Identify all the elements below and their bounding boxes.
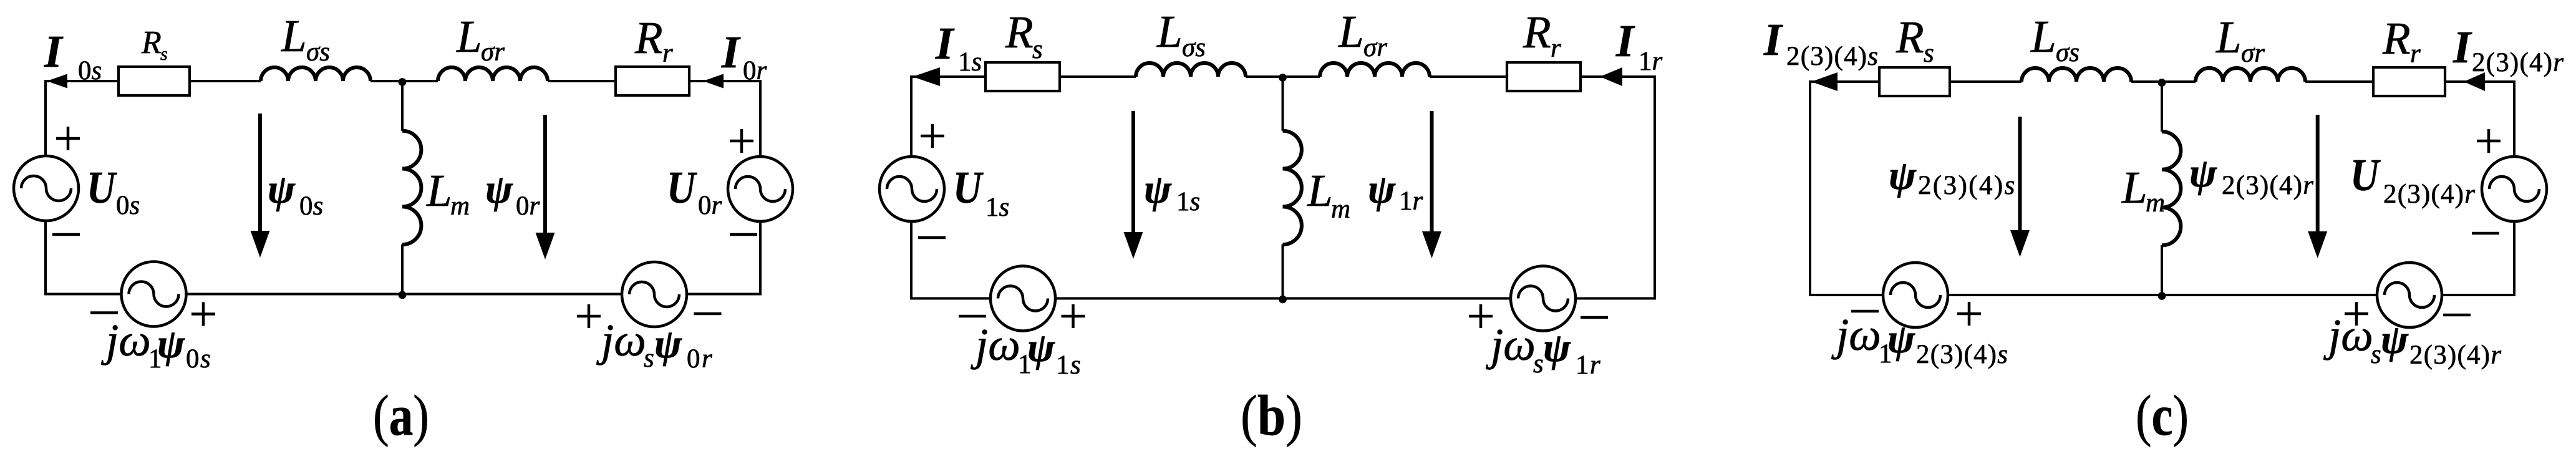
node top junction dot (a) — [399, 78, 407, 86]
svg-text:ψ: ψ — [1027, 325, 1055, 370]
node bottom junction dot (b) — [1279, 296, 1287, 304]
wire L_m to bottom node (b) — [1282, 244, 1284, 299]
plus sign jws_psi_1r — [1469, 304, 1493, 328]
minus sign U_2r — [2472, 232, 2499, 235]
svg-text:ψ: ψ — [2189, 150, 2217, 196]
wire bottom-left segment (a) — [44, 293, 122, 296]
svg-text:L: L — [1338, 6, 1364, 57]
svg-text:0r: 0r — [698, 191, 722, 220]
svg-text:s: s — [1924, 39, 1934, 68]
node bottom junction dot (c) — [2158, 292, 2166, 300]
svg-text:2(3)(4)s: 2(3)(4)s — [1918, 171, 2017, 200]
minus sign jws_psi_1r — [1581, 316, 1608, 319]
svg-text:I: I — [2453, 22, 2472, 72]
inductor L_sigma_s (b) — [1136, 63, 1246, 77]
svg-text:1s: 1s — [1056, 350, 1082, 380]
minus sign jw1psi_2s — [1851, 310, 1879, 313]
svg-text:ψ: ψ — [1368, 167, 1396, 212]
svg-text:r: r — [662, 39, 673, 68]
svg-text:L: L — [2121, 162, 2147, 213]
svg-text:2(3)(4)r: 2(3)(4)r — [2222, 171, 2314, 200]
svg-text:L: L — [2215, 12, 2242, 62]
svg-text:r: r — [1551, 34, 1561, 63]
wire bottom-right segment (c) — [2442, 294, 2515, 296]
svg-text:jω: jω — [1831, 309, 1881, 360]
svg-text:s: s — [2371, 340, 2381, 369]
svg-text:U: U — [87, 162, 117, 213]
wire right branch (b) — [1654, 75, 1656, 299]
svg-text:0s: 0s — [116, 191, 140, 220]
wire bottom-left segment (c) — [1809, 294, 1883, 296]
plus sign U_0s — [56, 127, 80, 150]
wire node to L_sigma_r (a) — [402, 80, 438, 82]
inductor L_sigma_s (a) — [261, 67, 370, 81]
svg-text:1r: 1r — [1399, 186, 1423, 216]
svg-text:1s: 1s — [985, 193, 1009, 222]
wire L_sigma_s to node (a) — [370, 80, 402, 82]
wire R_r to top-right corner (c) — [2445, 80, 2514, 83]
svg-text:m: m — [450, 191, 470, 221]
wire bottom-right segment (b) — [1576, 297, 1656, 300]
svg-text:r: r — [2410, 39, 2421, 69]
svg-text:1s: 1s — [958, 47, 982, 77]
magnetizing inductor L_m (c) — [2162, 132, 2181, 245]
minus sign jws_psi_2r — [2443, 314, 2471, 317]
wire right branch lower (a) — [759, 221, 762, 294]
svg-text:jω: jω — [1486, 319, 1536, 370]
svg-text:ψ: ψ — [654, 321, 682, 367]
inductor L_sigma_s (c) — [2022, 68, 2131, 82]
svg-text:2(3)(4)r: 2(3)(4)r — [2472, 48, 2564, 77]
wire left branch (c) — [1809, 80, 1811, 295]
wire R_r to top-right corner (b) — [1581, 75, 1655, 78]
minus sign U_0s — [52, 233, 80, 236]
wire right branch lower (c) — [2513, 221, 2515, 295]
wire top-left segment (b) — [911, 75, 985, 78]
node top junction dot (c) — [2158, 79, 2166, 87]
svg-text:ψ: ψ — [268, 167, 296, 212]
wire right branch upper (c) — [2513, 80, 2515, 157]
svg-text:R: R — [634, 12, 663, 63]
svg-text:ψ: ψ — [1889, 153, 1917, 198]
svg-text:jω: jω — [2323, 310, 2373, 360]
EMF source jw1psi_2(3)(4)s circle — [1883, 263, 1948, 327]
wire L_sigma_r to R_r (a) — [548, 80, 616, 82]
wire top-left segment (a) — [46, 80, 119, 82]
flux arrow psi_0r — [536, 115, 555, 259]
plus sign jw1psi_1s — [1062, 304, 1085, 328]
svg-text:ψ: ψ — [2381, 317, 2409, 362]
svg-text:L: L — [281, 11, 307, 61]
wire left branch lower (b) — [910, 221, 913, 299]
flux arrow psi_2(3)(4)r — [2308, 115, 2327, 258]
svg-text:0r: 0r — [743, 56, 767, 85]
svg-text:ψ: ψ — [1543, 325, 1571, 370]
svg-text:s: s — [1032, 35, 1043, 64]
resistor R_s (b) box — [985, 62, 1060, 91]
current arrow I_1s head — [913, 67, 940, 86]
svg-text:1s: 1s — [1176, 187, 1200, 216]
svg-text:σr: σr — [481, 37, 505, 67]
wire bottom middle segment (a) — [186, 293, 622, 296]
circuit (b) rotor-flux reference frame — [879, 62, 1656, 331]
svg-text:m: m — [2146, 188, 2165, 218]
EMF source jw1psi_1s circle — [990, 266, 1055, 331]
plus sign U_0r — [730, 129, 753, 153]
EMF source jws_psi_1r circle — [1511, 266, 1576, 331]
wire L_sigma_s to node (b) — [1246, 75, 1283, 78]
minus sign jw1psi_1s — [959, 315, 986, 318]
minus sign jws_psi_0r — [694, 312, 722, 316]
svg-text:σs: σs — [2056, 38, 2080, 67]
svg-text:I: I — [1615, 16, 1635, 66]
inductor L_sigma_r (b) — [1320, 63, 1430, 77]
svg-text:2(3)(4)r: 2(3)(4)r — [2383, 180, 2476, 209]
svg-text:ψ: ψ — [1887, 316, 1915, 362]
svg-text:σr: σr — [1363, 33, 1387, 62]
wire bottom-left segment (b) — [910, 297, 990, 300]
wire bottom-right segment (a) — [687, 293, 762, 296]
svg-text:σs: σs — [1182, 33, 1206, 62]
resistor R_s (c) box — [1879, 67, 1950, 96]
wire R_s to L_sigma_s (a) — [190, 80, 261, 82]
wire L_sigma_r to R_r (b) — [1430, 75, 1507, 78]
svg-text:I: I — [935, 18, 955, 69]
svg-text:(b): (b) — [1241, 384, 1302, 447]
svg-text:I: I — [44, 26, 64, 77]
resistor R_r (a) box — [616, 67, 689, 95]
current arrow I_0s head — [47, 74, 67, 89]
voltage source U_2(3)(4)r circle — [2482, 157, 2547, 221]
svg-text:L: L — [456, 11, 482, 62]
inductor L_sigma_r (a) — [438, 67, 548, 81]
magnetizing inductor L_m (a) — [402, 131, 421, 244]
svg-text:1r: 1r — [1576, 350, 1601, 380]
svg-text:m: m — [1331, 195, 1350, 224]
flux arrow psi_0s — [251, 114, 270, 258]
inductor L_sigma_r (c) — [2196, 68, 2305, 82]
svg-text:L: L — [426, 165, 452, 216]
voltage source U_0s circle — [14, 156, 79, 221]
wire bottom middle segment (b) — [1055, 297, 1511, 300]
svg-text:2(3)(4)s: 2(3)(4)s — [1916, 340, 2008, 369]
circuit (c) synchronous reference frame — [1809, 67, 2547, 327]
svg-text:I: I — [721, 27, 741, 77]
plus sign jw1psi_2s — [1957, 302, 1981, 326]
current arrow I_2(3)(4)r head — [2464, 72, 2485, 91]
resistor R_r (c) box — [2373, 67, 2445, 96]
plus sign jw1psi_0s — [191, 302, 215, 326]
minus sign jw1psi_0s — [90, 311, 118, 314]
wire R_s to L_sigma_s (b) — [1060, 75, 1136, 78]
wire node to L_m (c) — [2161, 82, 2163, 132]
svg-text:L: L — [2030, 11, 2056, 62]
minus sign U_0r — [730, 233, 757, 236]
wire node to L_m (b) — [1282, 77, 1284, 131]
svg-text:2(3)(4)r: 2(3)(4)r — [2409, 341, 2502, 370]
svg-text:s: s — [160, 44, 168, 64]
svg-text:U: U — [667, 162, 697, 213]
plus sign U_2r — [2477, 129, 2501, 153]
wire left branch upper (b) — [910, 75, 913, 157]
svg-text:R: R — [1896, 12, 1924, 62]
EMF source jws_psi_2(3)(4)r circle — [2377, 263, 2442, 327]
wire top-left segment (c) — [1810, 80, 1879, 83]
wire L_m to bottom node (c) — [2161, 245, 2163, 295]
svg-text:R: R — [141, 25, 162, 60]
voltage source U_1s circle — [879, 157, 944, 221]
voltage source U_0r circle — [728, 157, 793, 221]
flux arrow psi_1s — [1124, 111, 1143, 259]
wire R_r to top-right corner (a) — [689, 80, 760, 82]
svg-text:0s: 0s — [78, 56, 102, 85]
current arrow I_0r head — [703, 74, 724, 89]
EMF source jws_psi_0r circle — [622, 262, 687, 327]
magnetizing inductor L_m (b) — [1283, 131, 1302, 244]
plus sign jws_psi_0r — [577, 304, 601, 328]
svg-text:s: s — [1533, 349, 1544, 379]
svg-text:R: R — [2382, 13, 2411, 64]
svg-text:0s: 0s — [299, 191, 323, 221]
wire L_sigma_s to node (c) — [2131, 80, 2162, 83]
svg-text:0r: 0r — [687, 344, 714, 374]
svg-text:1r: 1r — [1639, 47, 1663, 76]
wire node to L_sigma_r (b) — [1283, 75, 1320, 78]
plus sign jws_psi_2r — [2345, 302, 2368, 326]
plus sign U_1s — [921, 124, 944, 148]
svg-text:jω: jω — [596, 315, 646, 365]
flux arrow psi_2(3)(4)s — [2010, 117, 2030, 257]
wire left branch upper (a) — [44, 80, 47, 156]
wire L_m to bottom node (a) — [401, 244, 404, 294]
svg-text:U: U — [2350, 150, 2381, 200]
svg-text:(a): (a) — [373, 384, 429, 447]
wire R_s to L_sigma_s (c) — [1950, 80, 2022, 83]
wire node to L_sigma_r (c) — [2162, 80, 2196, 83]
svg-text:ψ: ψ — [1144, 167, 1172, 212]
resistor R_r (b) box — [1507, 62, 1581, 91]
node bottom junction dot (a) — [399, 291, 407, 299]
wire node to L_m (a) — [401, 81, 404, 131]
svg-text:L: L — [1156, 6, 1183, 57]
svg-text:jω: jω — [101, 315, 151, 365]
svg-text:σr: σr — [2241, 39, 2265, 68]
svg-text:R: R — [1005, 7, 1034, 57]
flux arrow psi_1r — [1422, 111, 1441, 258]
svg-text:ψ: ψ — [485, 167, 513, 212]
svg-text:L: L — [1307, 165, 1333, 216]
current arrow I_2(3)(4)s head — [1811, 72, 1838, 91]
minus sign U_1s — [918, 236, 946, 239]
resistor R_s (a) box — [119, 67, 190, 95]
svg-text:s: s — [644, 344, 654, 373]
wire right branch upper (a) — [759, 80, 762, 157]
node top junction dot (b) — [1279, 74, 1287, 82]
svg-text:2(3)(4)s: 2(3)(4)s — [1786, 42, 1879, 71]
svg-text:(c): (c) — [2136, 384, 2189, 447]
wire bottom middle segment (c) — [1948, 294, 2377, 296]
svg-text:0r: 0r — [516, 191, 540, 221]
svg-text:I: I — [1763, 14, 1783, 65]
EMF source jw1psi_0s circle — [122, 262, 186, 327]
wire L_sigma_r to R_r (c) — [2305, 80, 2373, 83]
svg-text:R: R — [1523, 7, 1551, 57]
svg-text:U: U — [953, 162, 984, 213]
wire left branch lower (a) — [44, 221, 47, 294]
circuit (a) stator-flux reference frame — [14, 67, 793, 327]
svg-text:σs: σs — [306, 37, 330, 67]
svg-text:ψ: ψ — [157, 321, 185, 367]
svg-text:jω: jω — [971, 319, 1020, 370]
svg-text:0s: 0s — [186, 344, 211, 374]
current arrow I_1r head — [1600, 67, 1622, 86]
